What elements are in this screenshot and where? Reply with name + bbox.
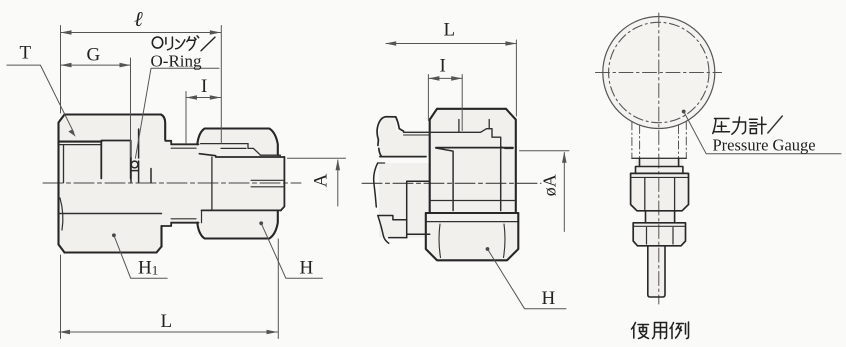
tube end bbox=[281, 157, 285, 210]
nut bore inner edge bbox=[211, 157, 213, 210]
dimension I line bbox=[186, 97, 221, 99]
leader pressure gauge bbox=[682, 110, 686, 114]
gauge case bottom bbox=[632, 157, 686, 159]
tube bottom edge bbox=[202, 209, 282, 211]
katakana ン bbox=[176, 40, 185, 49]
body step behind nut bottom bbox=[162, 223, 172, 226]
gauge circle fill bbox=[603, 17, 714, 128]
swivel nut right face top bbox=[161, 115, 165, 140]
slash between kanji and english bbox=[768, 116, 783, 133]
compression nut (upper hex) bbox=[631, 173, 689, 210]
svg-text:G: G bbox=[87, 45, 101, 66]
svg-text:A: A bbox=[311, 173, 332, 187]
tube top edge bbox=[216, 156, 285, 158]
leader H1 bbox=[112, 233, 116, 237]
gauge outer circle bbox=[603, 17, 715, 129]
male thread to right nut bottom bbox=[171, 222, 198, 224]
dimension G line bbox=[61, 64, 131, 66]
svg-text:T: T bbox=[20, 43, 32, 64]
dimension l (ell) line bbox=[61, 32, 221, 34]
broken male connector wavy line bbox=[374, 163, 389, 243]
male stud rectangle bbox=[407, 181, 430, 237]
kanji 圧 bbox=[713, 119, 730, 134]
kanji 使用例 drawn strokes bbox=[632, 322, 689, 339]
svg-text:H: H bbox=[542, 288, 556, 309]
swivel nut right face bottom bbox=[160, 226, 162, 247]
nut hex flat edges bbox=[436, 148, 501, 211]
dimension L middle line bbox=[386, 43, 516, 45]
extension line right of G bbox=[130, 58, 132, 157]
part interior shading fills bbox=[59, 17, 715, 297]
swivel nut outline bbox=[59, 115, 162, 253]
nut lower chamfer line bbox=[430, 200, 516, 202]
katakana グ bbox=[187, 36, 199, 50]
male connector edges bbox=[378, 162, 385, 164]
compression nut crown top bbox=[197, 129, 277, 156]
svg-text:L: L bbox=[444, 20, 456, 41]
lower hex chamfer line bbox=[426, 221, 519, 223]
kanji 力 bbox=[732, 117, 746, 134]
lower hex chamfer arcs bbox=[439, 224, 505, 258]
svg-text:Pressure Gauge: Pressure Gauge bbox=[713, 136, 816, 155]
ferrule nose bbox=[248, 144, 280, 157]
extension lines for L bbox=[61, 239, 279, 339]
extension lines I middle bbox=[428, 75, 462, 131]
lower hex top edge bbox=[426, 212, 519, 214]
male thread to right nut top bbox=[171, 143, 198, 145]
svg-text:I: I bbox=[440, 56, 446, 77]
svg-text:H: H bbox=[300, 258, 314, 279]
tube through nut top bbox=[404, 129, 513, 149]
tube stem bbox=[648, 246, 665, 297]
gauge horizontal centerline bbox=[596, 72, 722, 74]
compression nut chamfer line bbox=[632, 176, 688, 178]
swivel nut hex flat line bottom bbox=[59, 213, 162, 215]
centerline left view bbox=[43, 182, 301, 184]
tube wall second line bbox=[404, 134, 430, 136]
nut block middle view bbox=[430, 109, 516, 213]
kanji 圧力計 drawn strokes bbox=[713, 117, 766, 134]
female thread section lines bbox=[60, 141, 102, 143]
gauge case sides chain bbox=[632, 122, 686, 159]
svg-text:I: I bbox=[201, 76, 207, 97]
gauge vertical centerline bbox=[658, 13, 660, 304]
lower hex body bbox=[426, 213, 519, 260]
kanji 例 bbox=[670, 322, 689, 339]
dimension A line bbox=[337, 160, 339, 206]
ferrule seat line bbox=[436, 147, 513, 149]
slash after kana bbox=[201, 37, 215, 51]
O-ring C1 bbox=[131, 161, 138, 168]
left view silhouette fill bbox=[59, 115, 285, 253]
dimension phiA extension bbox=[520, 150, 570, 152]
katakana O-ring label drawn: Oリング/ bbox=[152, 36, 215, 51]
letter O of O-ring jp bbox=[152, 37, 162, 48]
right view fitting fill bbox=[631, 158, 689, 297]
extension line left of I bbox=[185, 92, 187, 144]
gauge inner circle chain line bbox=[609, 22, 709, 122]
extension line right of l bbox=[220, 26, 222, 144]
dimension L line bbox=[59, 331, 278, 333]
middle view stud fill bbox=[379, 163, 430, 238]
extension line left (l and L) bbox=[60, 26, 62, 114]
body-to-tube diagonal bbox=[199, 154, 215, 156]
body hex chamfer line bbox=[634, 225, 685, 227]
dimension phiA line bbox=[563, 153, 565, 232]
body stud block inside nut bbox=[101, 141, 130, 179]
svg-text:ℓ: ℓ bbox=[134, 7, 143, 31]
body step behind nut top bbox=[165, 141, 171, 145]
sleeve internals bbox=[201, 144, 248, 149]
kanji 用 bbox=[653, 323, 667, 339]
kanji 計 bbox=[750, 117, 767, 134]
body neck bbox=[646, 211, 675, 223]
tube bore lines bbox=[251, 180, 284, 187]
kanji 使 bbox=[632, 323, 649, 339]
svg-text:øA: øA bbox=[540, 174, 560, 196]
swivel nut chamfer arc bottom-left bbox=[60, 198, 63, 230]
tube broken end blob bbox=[377, 117, 403, 157]
leader H middle bbox=[486, 247, 490, 251]
compression nut flats bbox=[645, 178, 675, 210]
leader O-ring bbox=[135, 68, 219, 158]
body hex (lower) bbox=[633, 223, 685, 246]
katakana リ bbox=[166, 37, 173, 50]
O-ring groove walls bbox=[131, 129, 151, 183]
middle view tube band fill bbox=[379, 117, 430, 157]
svg-text:O-Ring: O-Ring bbox=[151, 51, 203, 70]
dimension I middle line bbox=[428, 77, 462, 79]
body hex flats bbox=[647, 228, 674, 245]
compression nut crown bottom bbox=[197, 210, 277, 238]
svg-text:L: L bbox=[161, 311, 173, 332]
nut-body engagement verticals bottom bbox=[201, 210, 203, 222]
leader H bbox=[259, 221, 263, 225]
middle view silhouette fill bbox=[426, 109, 519, 260]
dimension A extension bbox=[288, 157, 346, 159]
gauge socket block bbox=[636, 158, 683, 173]
nut flat edges above tube bbox=[459, 120, 489, 133]
leader T bbox=[7, 65, 74, 133]
tube bottom edge middle bbox=[380, 156, 426, 158]
extension line L middle bbox=[515, 40, 517, 116]
centerline middle view bbox=[362, 182, 541, 184]
thread relief vertical bbox=[63, 145, 65, 183]
